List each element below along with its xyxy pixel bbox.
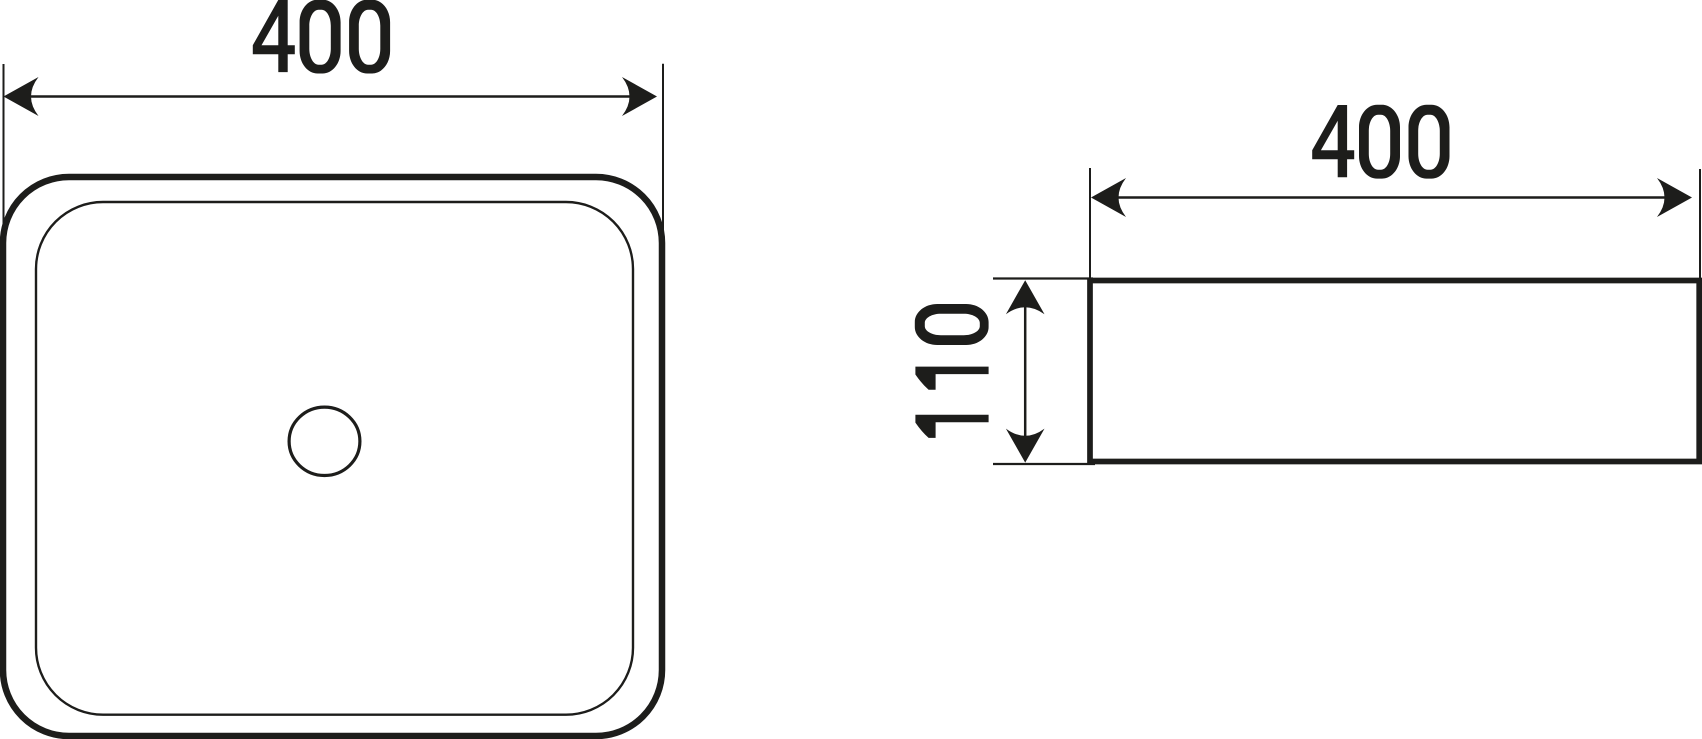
side view: width left arrowhead xyxy=(1091,178,1126,217)
side view: height bottom arrowhead xyxy=(1006,429,1045,463)
top view: outer basin outline xyxy=(3,177,662,736)
top view: width dimension line xyxy=(29,95,631,98)
top view: left arrowhead xyxy=(4,77,39,116)
top view: inner basin rim xyxy=(36,202,633,715)
side view: width dimension line xyxy=(1117,196,1666,199)
top view: width label 400 xyxy=(253,0,390,74)
side view: top extension line for height xyxy=(993,277,1093,279)
side view: left extension line for width xyxy=(1089,168,1091,280)
top view: right arrowhead xyxy=(622,77,657,116)
side view: height dimension line xyxy=(1024,307,1027,436)
side view: basin body rectangle xyxy=(1090,281,1699,462)
side view: width right arrowhead xyxy=(1657,178,1692,217)
side view: height label 110 xyxy=(915,304,989,438)
side view: right extension line for width xyxy=(1699,169,1701,278)
top view: right extension line xyxy=(662,64,664,240)
side view: bottom extension line for height xyxy=(993,463,1095,465)
side view: width label 400 xyxy=(1312,105,1449,179)
top view: drain hole xyxy=(289,407,360,475)
side view: height top arrowhead xyxy=(1006,280,1045,314)
top view: left extension line xyxy=(3,64,5,224)
